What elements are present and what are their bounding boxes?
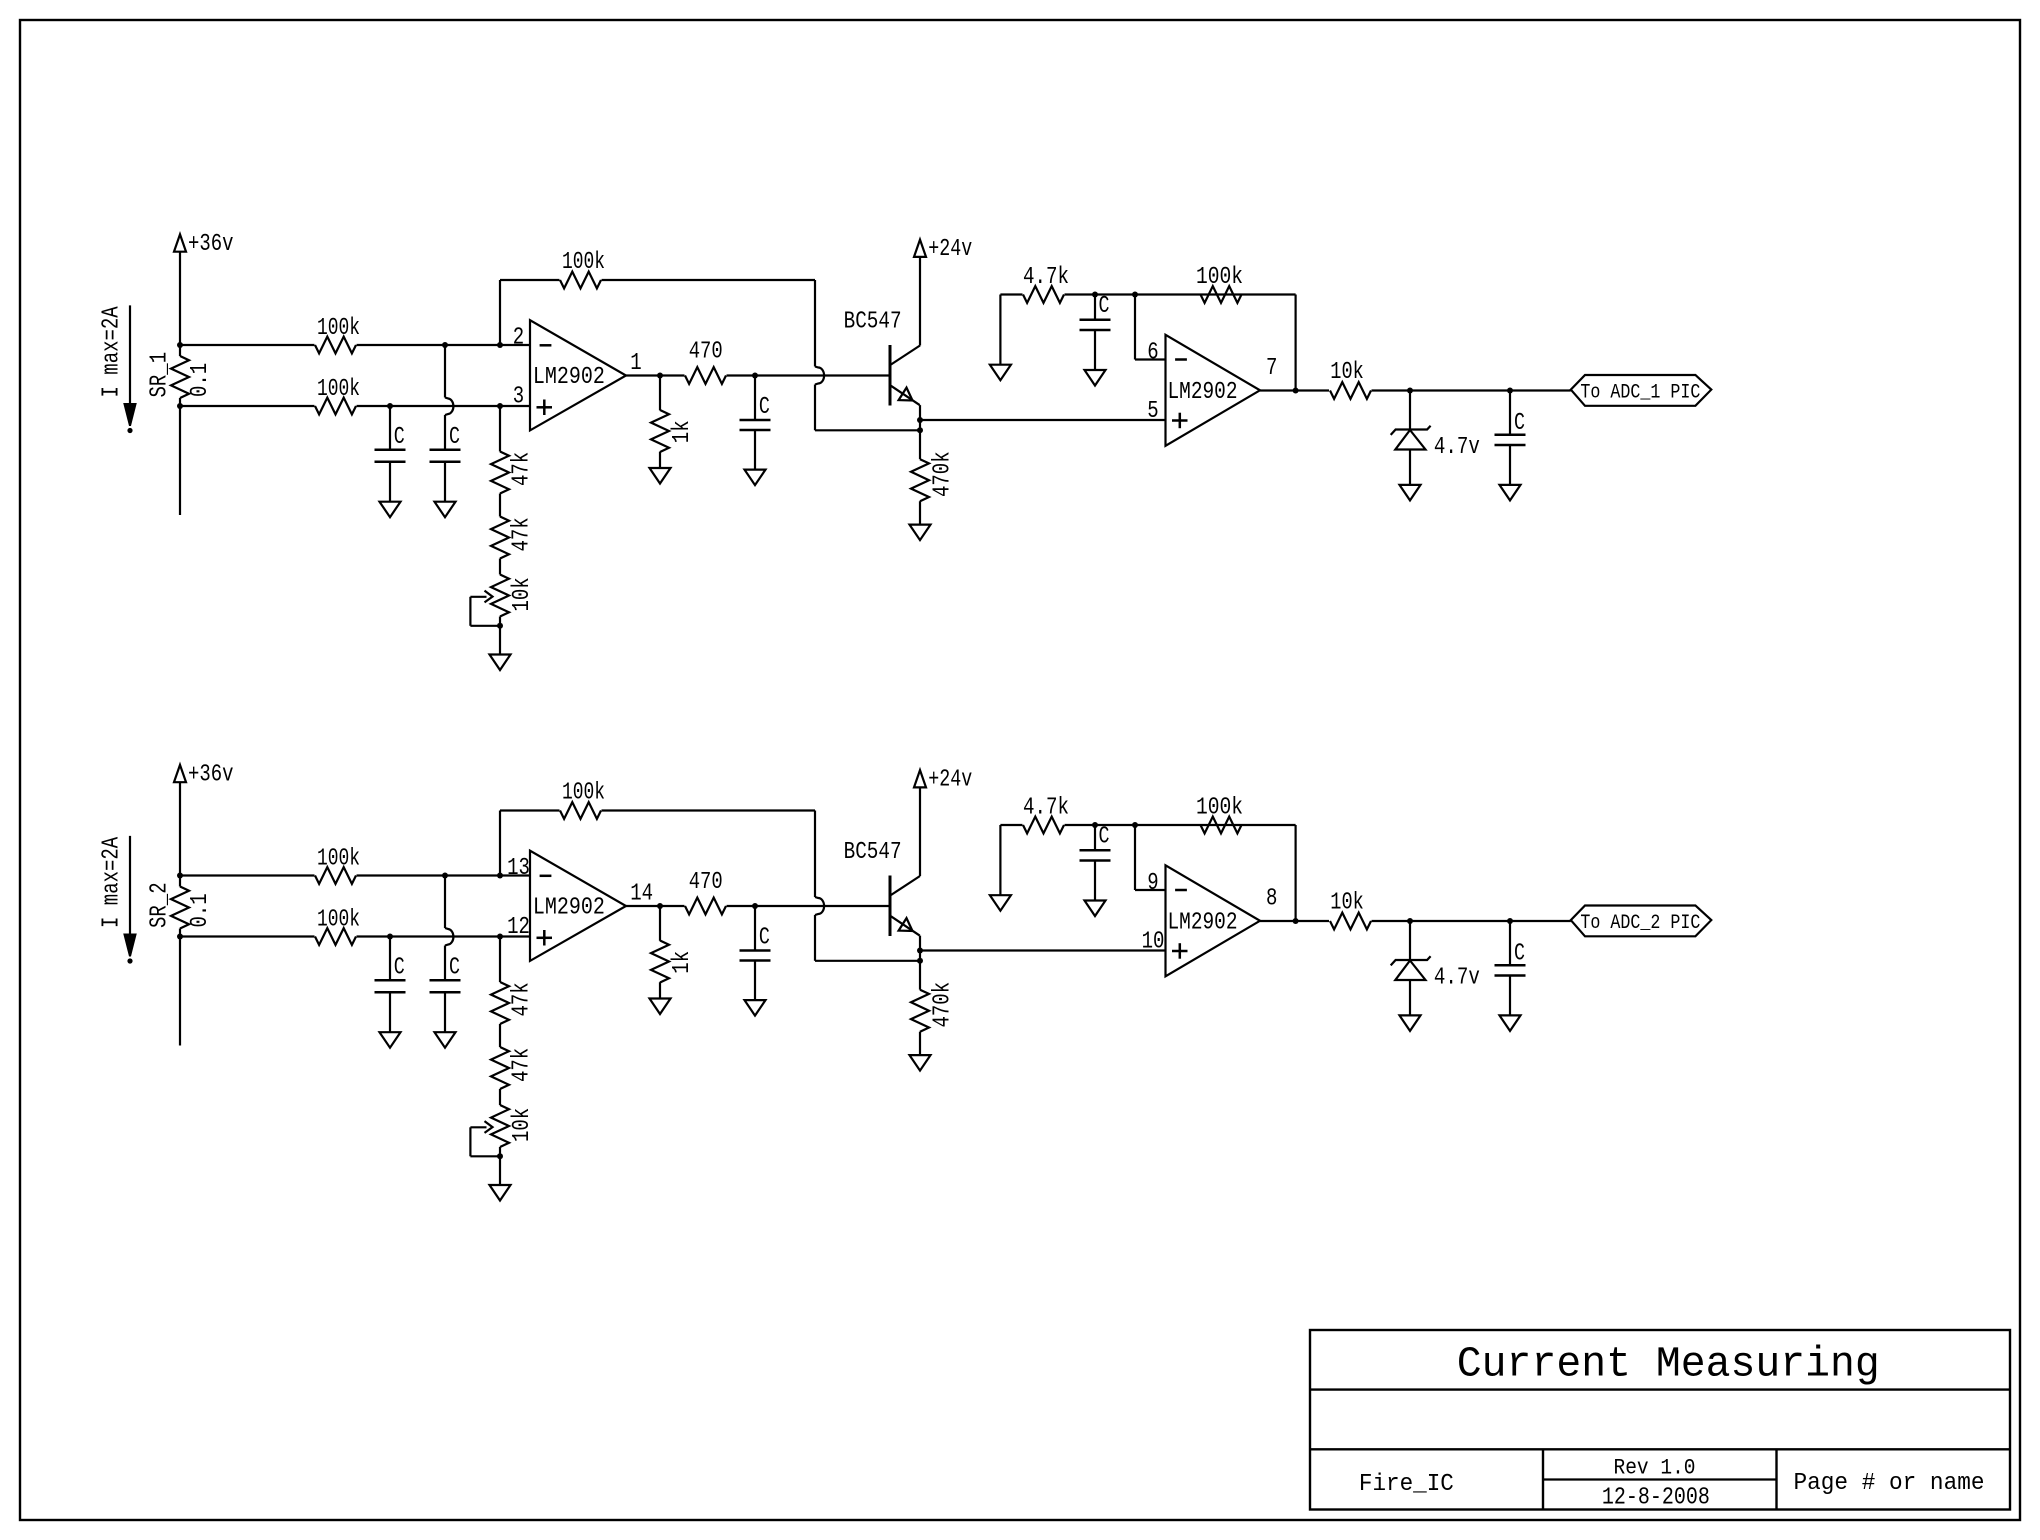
svg-text:0.1: 0.1 — [187, 893, 214, 927]
op-amp plus symbol — [537, 406, 553, 409]
ground (4.7k) — [990, 365, 1011, 381]
svg-text:12-8-2008: 12-8-2008 — [1602, 1485, 1710, 1512]
resistor 47k (divider upper) — [499, 406, 501, 452]
svg-text:C: C — [394, 424, 405, 451]
wire emitter down — [919, 936, 921, 990]
wire emitter down — [919, 405, 921, 459]
wire to pin 6 — [1134, 295, 1136, 360]
title block line Rev / date — [1543, 1478, 1777, 1480]
node emitter / to op-amp B — [917, 417, 923, 423]
svg-text:SR_2: SR_2 — [146, 882, 173, 928]
trimmer potentiometer 10k — [499, 1089, 501, 1105]
svg-text:1k: 1k — [669, 420, 696, 443]
svg-text:C: C — [394, 955, 405, 982]
resistor 47k (divider lower) — [499, 1024, 501, 1047]
op-amp minus symbol — [540, 344, 552, 347]
capacitor C (ADC filter) — [1509, 391, 1511, 435]
shunt resistor SR_1 0.1 — [179, 345, 181, 356]
pot wiper arrow — [470, 1126, 486, 1128]
wire +36v vertical — [179, 782, 181, 875]
svg-text:13: 13 — [507, 855, 530, 882]
op-amp U2A LM2902 — [530, 851, 626, 961]
wire emitter to op-amp B plus input — [920, 419, 1166, 421]
svg-text:100k: 100k — [317, 315, 360, 342]
output flag To ADC_2 PIC — [1571, 906, 1712, 937]
wire op-amp B output — [1260, 920, 1329, 922]
capacitor C (filter 1) — [389, 937, 391, 981]
node at SR_2 top — [177, 873, 183, 879]
svg-text:4.7v: 4.7v — [1434, 965, 1480, 992]
wire C filter 2 vertical with hop over lower wire — [444, 345, 446, 398]
svg-text:470: 470 — [689, 869, 723, 896]
resistor 1k to ground — [659, 376, 661, 411]
node output C — [1507, 918, 1513, 924]
node bias / C — [1092, 822, 1098, 828]
op-amp minus symbol — [540, 875, 552, 878]
svg-text:5: 5 — [1147, 398, 1158, 425]
svg-text:100k: 100k — [1196, 264, 1243, 291]
resistor 100k (feedback op-amp A) — [500, 279, 560, 281]
transistor Q BC547 — [889, 345, 892, 406]
svg-text:0.1: 0.1 — [187, 363, 214, 397]
pot wiper return wire — [469, 597, 471, 626]
wire feedback down with hop over output wire — [814, 280, 816, 367]
resistor 470 series — [685, 367, 726, 384]
svg-text:8: 8 — [1266, 885, 1277, 912]
capacitor C (filter 2) — [430, 979, 461, 982]
node pot bottom — [499, 617, 501, 626]
power +36v symbol (channel 1) — [174, 234, 186, 251]
svg-text:6: 6 — [1147, 340, 1158, 367]
capacitor C (filter 1) — [389, 406, 391, 450]
ground (divider) — [490, 655, 511, 671]
node lower wire / C filter — [387, 934, 393, 940]
wire feedback to emitter node — [815, 429, 920, 431]
wire op-amp B output — [1260, 389, 1329, 391]
capacitor C (output filter) — [754, 376, 756, 421]
node pot bottom — [499, 1147, 501, 1156]
svg-text:C: C — [1514, 941, 1525, 968]
resistor 100k (lower input) — [180, 405, 315, 407]
svg-text:+24v: +24v — [928, 236, 972, 263]
resistor 100k (feedback op-amp B) — [1201, 817, 1242, 834]
svg-text:Page # or name: Page # or name — [1794, 1470, 1985, 1497]
wire collector — [919, 787, 921, 876]
node pin 12 / divider tap — [497, 934, 503, 940]
resistor 10k series out — [1330, 382, 1371, 399]
node pin 3 / divider tap — [497, 403, 503, 409]
title block line above footer row — [1310, 1448, 2010, 1450]
svg-text:C: C — [1099, 293, 1110, 320]
current direction arrow — [129, 305, 131, 406]
node bias / pin 6 — [1132, 292, 1138, 298]
svg-text:47k: 47k — [509, 452, 536, 486]
wire to pin 9 — [1134, 825, 1136, 890]
resistor 100k (feedback op-amp A) — [500, 809, 560, 811]
resistor 4.7k bias — [1000, 293, 1022, 295]
title block outline — [1310, 1330, 2010, 1510]
node output / feedback B — [1293, 388, 1299, 394]
node 470/C — [752, 373, 758, 379]
op-amp B plus symbol — [1172, 950, 1188, 953]
svg-text:LM2902: LM2902 — [533, 894, 605, 921]
svg-text:1: 1 — [630, 350, 641, 377]
ground (zener) — [1400, 1015, 1421, 1031]
svg-text:14: 14 — [630, 880, 653, 907]
node at SR_2 bottom — [177, 934, 183, 940]
title block divider Rev / Page — [1775, 1449, 1777, 1509]
ground (zener) — [1400, 485, 1421, 501]
svg-text:10k: 10k — [1330, 359, 1364, 386]
node pin 2 / feedback tap — [497, 342, 503, 348]
svg-text:4.7k: 4.7k — [1023, 795, 1069, 822]
svg-text:LM2902: LM2902 — [533, 364, 605, 391]
svg-text:100k: 100k — [317, 907, 360, 934]
op-amp B minus symbol — [1175, 889, 1187, 892]
svg-text:10k: 10k — [1330, 890, 1364, 917]
wire C filter 2 vertical with hop over lower wire — [444, 876, 446, 929]
svg-text:C: C — [449, 424, 460, 451]
ground (bias C) — [1085, 901, 1106, 917]
node upper wire / C filter 2 — [442, 873, 448, 879]
ground (ADC C) — [1500, 485, 1521, 501]
node emitter / to op-amp B — [917, 948, 923, 954]
node output C — [1507, 388, 1513, 394]
svg-text:I max=2A: I max=2A — [99, 836, 126, 928]
title block divider Fire_IC / Rev — [1542, 1449, 1544, 1509]
node 470/C — [752, 903, 758, 909]
node output / feedback B — [1293, 918, 1299, 924]
svg-text:100k: 100k — [562, 249, 605, 276]
ground (C filter 2) — [435, 1032, 456, 1048]
svg-text:C: C — [449, 955, 460, 982]
svg-text:47k: 47k — [509, 982, 536, 1016]
svg-text:10: 10 — [1142, 929, 1165, 956]
svg-text:47k: 47k — [509, 517, 536, 551]
resistor 1k to ground — [659, 906, 661, 941]
svg-text:1k: 1k — [669, 951, 696, 974]
svg-text:12: 12 — [507, 914, 530, 941]
wire collector — [919, 257, 921, 346]
wire feedback up — [499, 811, 501, 876]
wire pot to ground — [499, 1156, 501, 1185]
wire load line below shunt — [179, 406, 181, 515]
wire feedback B down — [1294, 825, 1296, 921]
resistor 100k (lower input) — [180, 935, 315, 937]
node zener — [1407, 918, 1413, 924]
wire load line below shunt — [179, 937, 181, 1046]
ground (output filter C) — [745, 1000, 766, 1016]
svg-text:3: 3 — [513, 384, 524, 411]
node at SR_1 top — [177, 342, 183, 348]
svg-text:2: 2 — [513, 324, 524, 351]
svg-text:470: 470 — [689, 339, 723, 366]
wire 4.7k left leg — [999, 295, 1001, 365]
title block line under title — [1310, 1388, 2010, 1390]
resistor 470 series — [685, 898, 726, 915]
svg-text:C: C — [1099, 824, 1110, 851]
resistor 4.7k bias — [1000, 824, 1022, 826]
ground (bias C) — [1085, 370, 1106, 386]
svg-text:9: 9 — [1147, 870, 1158, 897]
ground (1k) — [650, 999, 671, 1015]
svg-text:4.7k: 4.7k — [1023, 264, 1069, 291]
power +24v symbol — [914, 240, 926, 257]
svg-text:470k: 470k — [930, 982, 957, 1028]
ground (C filter 1) — [380, 1032, 401, 1048]
resistor 100k (upper input) — [180, 874, 315, 876]
svg-text:Current Measuring: Current Measuring — [1457, 1340, 1880, 1389]
svg-text:BC547: BC547 — [844, 839, 902, 866]
node at SR_1 bottom — [177, 403, 183, 409]
pot wiper return wire — [469, 1127, 471, 1156]
node bias / C — [1092, 292, 1098, 298]
node emitter / feedback return — [917, 958, 923, 964]
power +24v symbol — [914, 770, 926, 787]
node lower wire / C filter — [387, 403, 393, 409]
wire feedback B down — [1294, 295, 1296, 391]
node output pin 1 — [657, 373, 663, 379]
node pin 13 / feedback tap — [497, 873, 503, 879]
ground (1k) — [650, 468, 671, 484]
svg-text:100k: 100k — [562, 780, 605, 807]
ground (C filter 2) — [435, 502, 456, 518]
svg-text:10k: 10k — [509, 577, 536, 611]
node zener — [1407, 388, 1413, 394]
wire op-amp output — [626, 905, 685, 907]
capacitor C (bias filter) — [1094, 825, 1096, 850]
trimmer potentiometer 10k — [499, 559, 501, 575]
wire pot to ground — [499, 626, 501, 655]
wire emitter to op-amp B plus input — [920, 949, 1166, 951]
svg-text:+36v: +36v — [188, 762, 234, 789]
node output pin 14 — [657, 903, 663, 909]
svg-text:BC547: BC547 — [844, 309, 902, 336]
op-amp U1B LM2902 — [1166, 335, 1261, 446]
capacitor C (bias filter) — [1094, 295, 1096, 320]
svg-text:Rev 1.0: Rev 1.0 — [1614, 1456, 1696, 1481]
svg-text:+36v: +36v — [188, 231, 234, 258]
power +36v symbol (channel 2) — [174, 765, 186, 782]
op-amp U2B LM2902 — [1166, 865, 1261, 976]
shunt resistor SR_2 0.1 — [179, 876, 181, 887]
ground (470k) — [910, 1055, 931, 1071]
svg-text:100k: 100k — [317, 846, 360, 873]
svg-text:470k: 470k — [930, 451, 957, 497]
capacitor C (ADC filter) — [1509, 921, 1511, 965]
svg-text:4.7v: 4.7v — [1434, 434, 1480, 461]
svg-text:To ADC_2 PIC: To ADC_2 PIC — [1580, 912, 1700, 935]
svg-text:10k: 10k — [509, 1108, 536, 1142]
svg-text:SR_1: SR_1 — [146, 352, 173, 398]
resistor 47k (divider lower) — [499, 494, 501, 517]
svg-text:7: 7 — [1266, 355, 1277, 382]
resistor 470k emitter load — [911, 990, 929, 1032]
svg-text:C: C — [759, 924, 770, 951]
op-amp B minus symbol — [1175, 358, 1187, 361]
capacitor C (output filter) — [754, 906, 756, 951]
wire op-amp output — [626, 374, 685, 376]
resistor 470k emitter load — [911, 459, 929, 501]
ground (output filter C) — [745, 470, 766, 486]
current direction arrow — [129, 836, 131, 937]
zener diode 4.7v — [1409, 921, 1411, 960]
output flag To ADC_1 PIC — [1571, 375, 1712, 406]
resistor 47k (divider upper) — [499, 937, 501, 983]
resistor 100k (upper input) — [180, 344, 315, 346]
node emitter / feedback return — [917, 427, 923, 433]
svg-text:100k: 100k — [1196, 795, 1243, 822]
op-amp U1A LM2902 — [530, 320, 626, 430]
ground (ADC C) — [1500, 1015, 1521, 1031]
wire feedback up — [499, 280, 501, 345]
svg-text:100k: 100k — [317, 376, 360, 403]
ground (C filter 1) — [380, 502, 401, 518]
svg-text:I max=2A: I max=2A — [99, 306, 126, 398]
wire feedback down with hop over output wire — [814, 811, 816, 898]
node bias / pin 9 — [1132, 822, 1138, 828]
wire feedback to emitter node — [815, 960, 920, 962]
svg-text:Fire_IC: Fire_IC — [1359, 1471, 1454, 1498]
op-amp B plus symbol — [1172, 419, 1188, 422]
svg-text:47k: 47k — [509, 1048, 536, 1082]
svg-text:LM2902: LM2902 — [1168, 379, 1238, 406]
ground (4.7k) — [990, 895, 1011, 911]
svg-text:LM2902: LM2902 — [1168, 910, 1238, 937]
zener diode 4.7v — [1409, 391, 1411, 430]
ground (470k) — [910, 525, 931, 541]
svg-text:C: C — [759, 394, 770, 421]
wire 4.7k left leg — [999, 825, 1001, 895]
ground (divider) — [490, 1185, 511, 1201]
svg-text:+24v: +24v — [928, 767, 972, 794]
node upper wire / C filter 2 — [442, 342, 448, 348]
pot wiper arrow — [470, 596, 486, 598]
op-amp plus symbol — [537, 937, 553, 940]
transistor Q BC547 — [889, 876, 892, 937]
resistor 10k series out — [1330, 913, 1371, 930]
capacitor C (filter 2) — [430, 448, 461, 451]
resistor 100k (feedback op-amp B) — [1201, 286, 1242, 303]
wire +36v vertical — [179, 252, 181, 345]
svg-text:To ADC_1 PIC: To ADC_1 PIC — [1580, 382, 1700, 405]
svg-text:C: C — [1514, 410, 1525, 437]
